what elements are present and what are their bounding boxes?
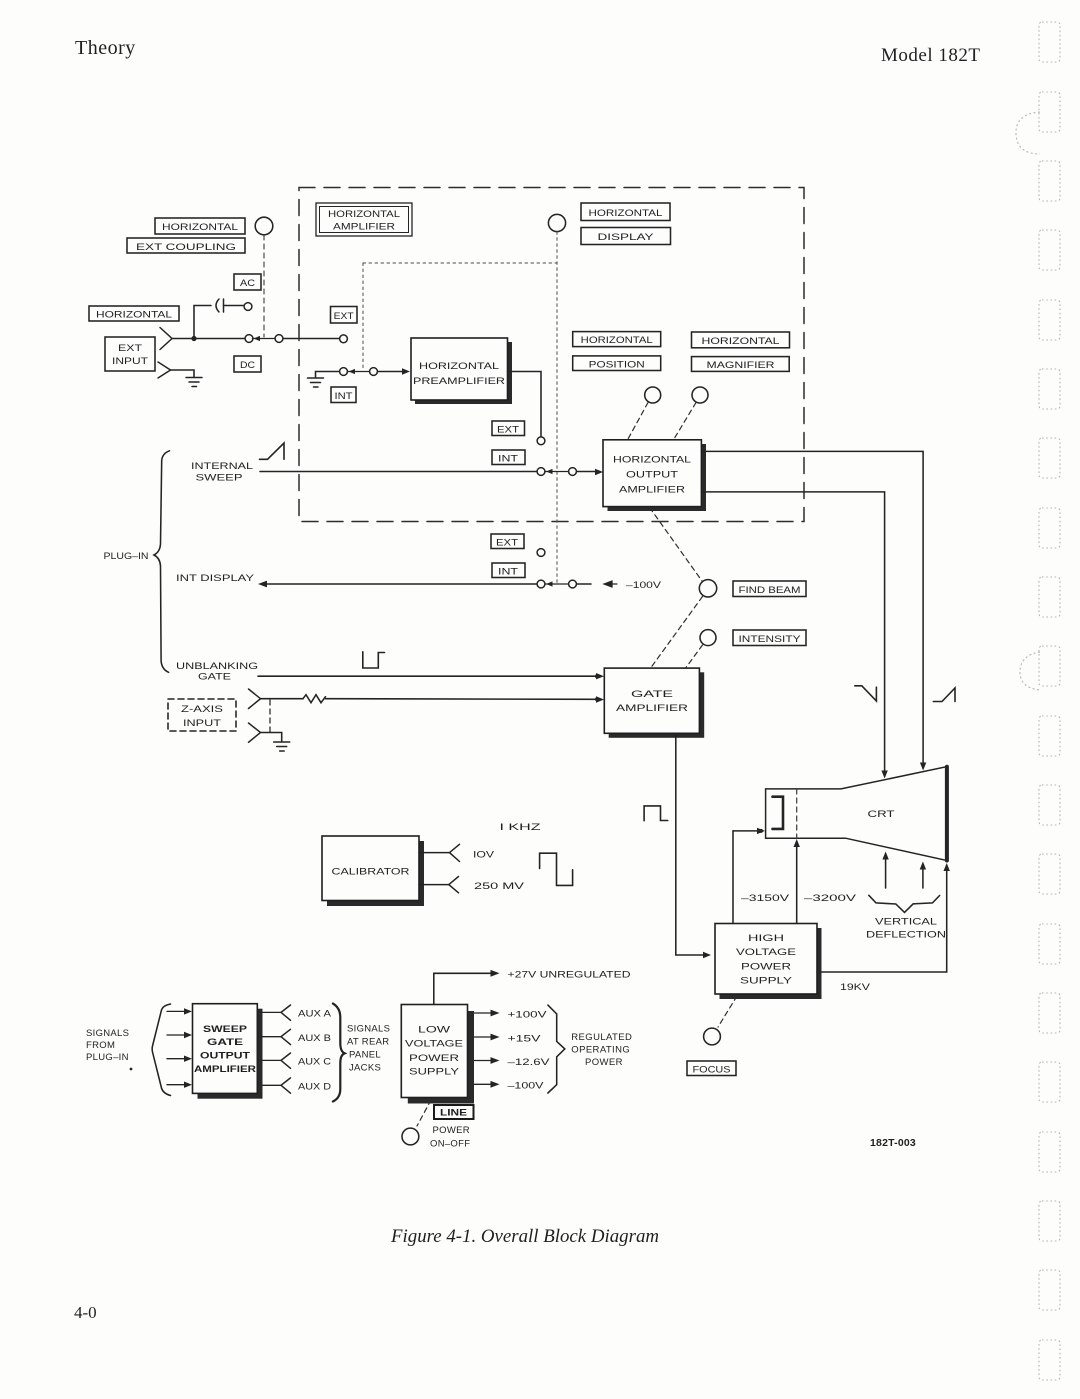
- svg-text:POWER: POWER: [585, 1057, 623, 1068]
- svg-text:SUPPLY: SUPPLY: [409, 1067, 460, 1078]
- label box AC: [234, 274, 261, 290]
- wire: junction to DC contact: [194, 338, 245, 340]
- svg-text:SWEEP: SWEEP: [203, 1024, 248, 1035]
- wire: ground branch of ext input: [171, 370, 195, 377]
- svg-text:HORIZONTAL: HORIZONTAL: [589, 208, 663, 218]
- svg-text:AC: AC: [240, 278, 256, 288]
- CRT envelope: [766, 767, 947, 861]
- label box DC: [234, 356, 261, 372]
- svg-text:+27V UNREGULATED: +27V UNREGULATED: [508, 970, 631, 981]
- dashed link between z-axis connectors: [269, 700, 271, 733]
- wire: -3150V from HVPS up to gun: [732, 831, 734, 924]
- wiper arrow preamp input switch: [348, 371, 370, 373]
- svg-text:UNBLANKING: UNBLANKING: [176, 661, 258, 672]
- svg-text:MAGNIFIER: MAGNIFIER: [707, 360, 776, 370]
- knob: horizontal display switch: [548, 214, 565, 231]
- svg-text:–3150V: –3150V: [741, 893, 790, 904]
- svg-text:POWER: POWER: [741, 962, 791, 973]
- svg-text:SIGNALS: SIGNALS: [347, 1024, 390, 1035]
- svg-text:I KHZ: I KHZ: [500, 822, 541, 833]
- wiper arrow display switch: [545, 583, 569, 585]
- svg-text:GATE: GATE: [631, 689, 673, 700]
- wire: internal sweep to INT contact: [260, 471, 537, 473]
- svg-text:HORIZONTAL: HORIZONTAL: [162, 222, 238, 232]
- connector chevron: z-axis input: [249, 689, 261, 709]
- contact: DC: [245, 335, 253, 343]
- svg-text:DEFLECTION: DEFLECTION: [866, 930, 946, 941]
- wiper arrow sweep switch: [545, 471, 569, 473]
- CRT screen face: [945, 767, 949, 861]
- label box LINE (bold): [434, 1105, 474, 1119]
- dashed linkage HOA to find beam switch: [650, 508, 702, 582]
- wire: z-axis to resistor: [261, 698, 304, 700]
- svg-text:FROM: FROM: [86, 1040, 115, 1051]
- dashed linkage HVPS to focus knob: [718, 996, 737, 1027]
- connector chevron: ext input (ground side): [158, 362, 171, 378]
- contact: display INT: [537, 580, 545, 588]
- svg-text:–100V: –100V: [626, 580, 662, 591]
- svg-text:SWEEP: SWEEP: [196, 473, 243, 484]
- label box FIND BEAM: [733, 581, 806, 597]
- block: HORIZONTAL PREAMPLIFIER: [411, 338, 512, 404]
- svg-text:DC: DC: [240, 360, 256, 370]
- block: SWEEP GATE OUTPUT AMPLIFIER: [193, 1004, 263, 1099]
- svg-text:Figure 4-1. Overall Block Diag: Figure 4-1. Overall Block Diagram: [390, 1226, 659, 1247]
- linkage dotted box top: [363, 262, 557, 264]
- svg-text:HORIZONTAL: HORIZONTAL: [581, 335, 653, 345]
- svg-text:IOV: IOV: [473, 850, 495, 861]
- svg-text:FOCUS: FOCUS: [693, 1065, 731, 1075]
- svg-text:POWER: POWER: [433, 1125, 470, 1136]
- waveform: calibrator square wave: [540, 853, 573, 885]
- label box HORIZONTAL (display): [581, 203, 670, 221]
- knob: ext coupling control: [255, 217, 273, 235]
- dashed linkage magnifier knob to HOA: [674, 403, 696, 440]
- block: CALIBRATOR: [322, 836, 424, 906]
- svg-text:AUX D: AUX D: [298, 1081, 331, 1092]
- contact: INT: [340, 368, 348, 376]
- svg-text:–12.6V: –12.6V: [508, 1057, 551, 1068]
- wire: calibrator 10V output: [419, 852, 449, 854]
- CRT electron gun: [773, 797, 784, 829]
- wire: sweep wiper to horizontal output amplifier: [577, 471, 600, 473]
- connector chevron: z-axis ground: [249, 723, 261, 742]
- svg-text:JACKS: JACKS: [349, 1063, 381, 1074]
- wire: capacitor to AC contact: [224, 305, 244, 307]
- svg-text:LINE: LINE: [440, 1108, 467, 1119]
- label box EXT (sweep switch): [492, 421, 525, 436]
- svg-text:CRT: CRT: [868, 809, 895, 820]
- resistor: z-axis series: [303, 695, 326, 703]
- svg-text:POWER: POWER: [409, 1053, 459, 1064]
- contact: display EXT (open): [537, 549, 545, 557]
- svg-text:INT: INT: [498, 567, 519, 577]
- contact: coupling wiper: [275, 335, 283, 343]
- wire: cathode feed into gun: [733, 830, 759, 832]
- svg-text:HIGH: HIGH: [748, 933, 784, 944]
- contact: sweep wiper: [569, 468, 577, 476]
- block: HIGH VOLTAGE POWER SUPPLY: [715, 924, 822, 1000]
- block: HORIZONTAL OUTPUT AMPLIFIER: [603, 440, 706, 511]
- knob: focus: [704, 1028, 721, 1045]
- svg-text:INPUT: INPUT: [183, 718, 222, 728]
- waveform: unblanking gate pulse: [363, 652, 385, 668]
- label box HORIZONTAL (position): [573, 332, 661, 347]
- wire: vertical deflection arrows: [885, 856, 887, 888]
- wire: +27V unregulated: [434, 973, 494, 1004]
- label box MAGNIFIER: [692, 357, 790, 372]
- contact: AC: [244, 303, 252, 311]
- dashed linkage intensity to gate amplifier: [686, 645, 703, 668]
- dashed linkage position knob to HOA: [628, 403, 648, 440]
- svg-text:PLUG–IN: PLUG–IN: [104, 551, 149, 562]
- connector chevron: 250MV: [449, 877, 459, 893]
- svg-text:Theory: Theory: [75, 37, 136, 59]
- label box EXT COUPLING: [127, 238, 245, 253]
- brace: vertical deflection: [869, 895, 940, 912]
- label box EXT INPUT: [105, 337, 155, 371]
- label box HORIZONTAL AMPLIFIER (double border): [316, 203, 412, 236]
- svg-text:AUX A: AUX A: [298, 1009, 332, 1020]
- block: LOW VOLTAGE POWER SUPPLY: [401, 1005, 474, 1104]
- wire: aux outputs: [257, 1012, 281, 1085]
- label box EXT (display switch): [491, 534, 524, 549]
- svg-text:AUX B: AUX B: [298, 1033, 331, 1044]
- knob: horizontal magnifier: [692, 387, 708, 403]
- svg-text:REGULATED: REGULATED: [571, 1032, 632, 1043]
- svg-text:VOLTAGE: VOLTAGE: [736, 947, 796, 958]
- svg-text:VOLTAGE: VOLTAGE: [405, 1039, 463, 1050]
- wire: regulated outputs: [475, 1013, 495, 1084]
- svg-text:HORIZONTAL: HORIZONTAL: [613, 455, 691, 466]
- wire: gate amplifier output down to HVPS: [676, 734, 707, 956]
- ground: preamp int input: [308, 378, 324, 387]
- wire: unblanking gate to gate amplifier: [258, 675, 600, 677]
- svg-text:EXT: EXT: [497, 425, 520, 435]
- svg-text:AT REAR: AT REAR: [347, 1037, 389, 1048]
- knob: horizontal position: [645, 387, 661, 403]
- dashed linkage LVPS to power switch: [417, 1100, 431, 1126]
- arrow: -100V feed: [604, 581, 617, 587]
- label box HORIZONTAL (input): [89, 306, 179, 321]
- svg-text:+15V: +15V: [508, 1033, 542, 1044]
- svg-text:LOW: LOW: [418, 1025, 450, 1036]
- wire: branch up to AC capacitor: [194, 306, 211, 339]
- wire: ext input to junction: [172, 338, 194, 340]
- svg-text:182T-003: 182T-003: [870, 1137, 916, 1149]
- contact: EXT (preamp input switch, open): [340, 335, 348, 343]
- waveform: falling ramp (right defl): [855, 686, 877, 701]
- label box POSITION: [573, 356, 661, 371]
- svg-text:INT DISPLAY: INT DISPLAY: [176, 573, 255, 584]
- waveform: internal sweep sawtooth: [260, 443, 285, 459]
- svg-text:PANEL: PANEL: [349, 1050, 381, 1061]
- svg-text:CALIBRATOR: CALIBRATOR: [332, 867, 410, 878]
- label box INT (sweep switch): [492, 450, 525, 465]
- svg-text:OPERATING: OPERATING: [571, 1045, 630, 1056]
- svg-text:INTENSITY: INTENSITY: [739, 634, 801, 644]
- svg-text:–100V: –100V: [508, 1080, 545, 1091]
- svg-text:GATE: GATE: [207, 1037, 243, 1048]
- enclosure: horizontal amplifier dashed box: [299, 188, 804, 522]
- wire: preamp output to EXT contact of sweep switch: [508, 372, 542, 437]
- svg-text:PREAMPLIFIER: PREAMPLIFIER: [413, 376, 505, 387]
- svg-text:INPUT: INPUT: [112, 356, 149, 366]
- wire: coupling switch into dashed enclosure: [283, 338, 339, 340]
- svg-text:AMPLIFIER: AMPLIFIER: [616, 703, 688, 714]
- node: ext input junction: [191, 336, 196, 341]
- wire: z-axis ground branch: [261, 733, 282, 742]
- svg-text:DISPLAY: DISPLAY: [598, 232, 654, 242]
- label box INTENSITY: [733, 630, 806, 646]
- CRT grid (dashed): [796, 789, 798, 838]
- svg-text:SUPPLY: SUPPLY: [740, 976, 793, 987]
- brace: signals from plug-in: [152, 1004, 170, 1096]
- svg-text:INT: INT: [498, 454, 519, 464]
- wire: ground to int contact: [316, 372, 340, 378]
- svg-text:–3200V: –3200V: [804, 893, 857, 904]
- dashed linkage find beam to gate amplifier: [651, 597, 703, 668]
- svg-text:+100V: +100V: [508, 1010, 548, 1021]
- svg-text:POSITION: POSITION: [589, 359, 645, 369]
- wire: int display line with left arrow: [265, 583, 537, 585]
- linkage dotted box left: [362, 263, 364, 368]
- wire: HOA upper output to CRT right deflection: [701, 451, 923, 766]
- wire: wiper to preamplifier with arrow: [378, 371, 403, 373]
- waveform: unblanking pulse to crt: [644, 806, 668, 821]
- svg-text:INTERNAL: INTERNAL: [191, 461, 253, 472]
- wire: display wiper stub: [577, 583, 591, 585]
- contact: display wiper: [569, 580, 577, 588]
- svg-text:FIND BEAM: FIND BEAM: [739, 585, 801, 595]
- wire: HOA lower output to CRT left deflection: [701, 492, 884, 774]
- wire: 19KV from HVPS to CRT screen: [817, 867, 947, 972]
- svg-text:HORIZONTAL: HORIZONTAL: [96, 310, 172, 320]
- label box DISPLAY: [581, 228, 671, 245]
- label box HORIZONTAL (magnifier): [692, 332, 790, 348]
- knob: power on-off: [402, 1128, 419, 1145]
- svg-text:EXT: EXT: [496, 538, 519, 548]
- connector chevron: 10V: [450, 844, 460, 861]
- knob: find beam: [699, 580, 716, 597]
- contact: sweep INT: [537, 468, 545, 476]
- svg-text:AMPLIFIER: AMPLIFIER: [619, 485, 685, 496]
- label box INT (preamp input): [331, 387, 356, 403]
- waveform: rising ramp (left defl): [933, 688, 955, 702]
- label box EXT (preamp input): [331, 307, 358, 324]
- block: GATE AMPLIFIER: [604, 668, 704, 738]
- svg-text:AUX C: AUX C: [298, 1057, 331, 1068]
- label box INT (display switch): [492, 563, 525, 578]
- svg-text:HORIZONTAL: HORIZONTAL: [702, 336, 780, 346]
- connector chevron: ext input (signal): [160, 328, 172, 350]
- wiper arrow on coupling switch: [253, 338, 276, 340]
- svg-text:HORIZONTAL: HORIZONTAL: [419, 361, 499, 372]
- label box Z-AXIS INPUT (dashed): [168, 699, 236, 731]
- svg-text:Model 182T: Model 182T: [881, 45, 980, 66]
- brace: PLUG-IN: [154, 451, 170, 673]
- wire: sgoa input arrows: [167, 1011, 186, 1084]
- connector chevrons: aux jacks: [281, 1005, 291, 1093]
- wire: -3200V from HVPS up to grid: [796, 843, 798, 924]
- capacitor: AC coupling: [216, 299, 219, 312]
- contact: sweep EXT: [537, 437, 545, 445]
- svg-text:INT: INT: [335, 391, 354, 401]
- brace: regulated operating power: [548, 1005, 565, 1093]
- svg-text:PLUG–IN: PLUG–IN: [86, 1052, 129, 1063]
- svg-text:4-0: 4-0: [74, 1303, 97, 1322]
- svg-text:Z-AXIS: Z-AXIS: [181, 704, 223, 714]
- svg-text:ON–OFF: ON–OFF: [430, 1139, 470, 1150]
- svg-text:EXT COUPLING: EXT COUPLING: [136, 242, 236, 252]
- svg-text:HORIZONTAL: HORIZONTAL: [328, 209, 400, 219]
- svg-text:OUTPUT: OUTPUT: [626, 470, 678, 481]
- svg-text:AMPLIFIER: AMPLIFIER: [333, 222, 396, 232]
- svg-text:GATE: GATE: [198, 672, 231, 683]
- ground: z-axis: [274, 742, 290, 751]
- svg-text:AMPLIFIER: AMPLIFIER: [194, 1064, 256, 1075]
- svg-text:250 MV: 250 MV: [474, 881, 525, 892]
- svg-text:SIGNALS: SIGNALS: [86, 1028, 129, 1039]
- label box FOCUS: [687, 1061, 736, 1076]
- svg-text:OUTPUT: OUTPUT: [200, 1051, 250, 1062]
- dashed linkage from ext coupling knob to AC/DC switch: [263, 235, 265, 337]
- svg-text:EXT: EXT: [334, 311, 355, 321]
- knob: intensity: [700, 630, 716, 646]
- ground: ext input: [186, 378, 202, 387]
- svg-text:EXT: EXT: [118, 343, 143, 353]
- svg-text:19KV: 19KV: [840, 982, 871, 993]
- dashed linkage from display knob down through switch sections: [556, 232, 558, 584]
- svg-text:VERTICAL: VERTICAL: [875, 917, 937, 928]
- wire: calibrator 250MV output: [419, 884, 449, 886]
- label box HORIZONTAL (ext coupling): [155, 218, 245, 234]
- contact: preamp input wiper: [370, 368, 378, 376]
- wire: resistor to gate amplifier: [326, 698, 601, 701]
- paren: aux group: [333, 1004, 345, 1102]
